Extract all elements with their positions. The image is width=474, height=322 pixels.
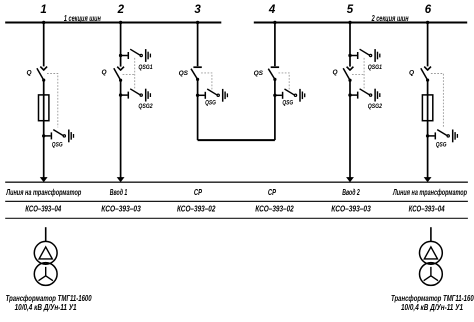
interlock link Q-QSG (cell 6) xyxy=(431,74,444,128)
fuse FU (cell 1) xyxy=(39,95,49,121)
transformer T2 (two windings) xyxy=(420,241,443,285)
earthing switch QSG2 (cell 5) xyxy=(348,89,382,111)
wire to transformer T1 xyxy=(45,227,47,241)
disconnector QS (cell 4) xyxy=(254,67,280,81)
svg-text:Q: Q xyxy=(332,69,337,76)
wire cell 4 upper drop xyxy=(274,23,276,67)
load break switch Q (cell 1) xyxy=(26,67,47,82)
wire cell 5 lower drop xyxy=(349,80,351,177)
wire cell 2 upper drop xyxy=(120,23,122,67)
interlock link QSG1-Q-QSG2 (cell 2) xyxy=(123,58,135,90)
interlock link QS-QSG (cell 4) xyxy=(278,73,289,90)
earthing switch QSG2 (cell 2) xyxy=(119,89,153,111)
svg-text:Трансформатор ТМГ11-1600: Трансформатор ТМГ11-1600 xyxy=(6,294,92,303)
wire cell 6 lower drop xyxy=(427,80,429,178)
svg-text:Линия на трансформатор: Линия на трансформатор xyxy=(6,187,82,197)
earthing switch QSG (cell 3) xyxy=(196,89,227,107)
table middle line xyxy=(5,200,468,202)
svg-text:QSG1: QSG1 xyxy=(368,65,383,71)
earthing switch QSG (cell 6) xyxy=(426,130,458,149)
svg-text:3: 3 xyxy=(194,4,201,16)
interlock link QS-QSG (cell 3) xyxy=(201,73,212,90)
svg-text:QSG1: QSG1 xyxy=(138,65,153,71)
svg-text:Ввод 2: Ввод 2 xyxy=(342,187,360,197)
delta winding symbol T2 xyxy=(424,247,437,259)
fuse FU (cell 6) xyxy=(422,95,432,121)
svg-text:1: 1 xyxy=(40,4,46,16)
svg-text:QSG: QSG xyxy=(205,101,216,107)
disconnector QS (cell 3) xyxy=(179,67,202,81)
wire cell 4 lower drop xyxy=(274,79,276,140)
interlock link Q-QSG (cell 1) xyxy=(47,74,58,128)
svg-text:4: 4 xyxy=(268,4,276,16)
svg-text:Ввод 1: Ввод 1 xyxy=(110,187,128,197)
wire cell 1 upper drop xyxy=(43,23,45,67)
earthing switch QSG (cell 4) xyxy=(273,89,305,107)
earthing switch QSG1 (cell 5) xyxy=(348,49,382,71)
svg-text:Q: Q xyxy=(26,69,31,76)
svg-text:КСО–393–04: КСО–393–04 xyxy=(25,205,61,214)
svg-text:Линия на трансформатор: Линия на трансформатор xyxy=(392,187,467,197)
svg-text:СР: СР xyxy=(268,187,276,197)
svg-text:2 секция шин: 2 секция шин xyxy=(371,14,409,23)
svg-text:10/0,4 кВ Д/Ун-11 У1: 10/0,4 кВ Д/Ун-11 У1 xyxy=(401,303,463,312)
interlock link QSG1-Q-QSG2 (cell 5) xyxy=(352,58,364,90)
svg-text:QS: QS xyxy=(254,70,264,77)
arrow into table cell 6 xyxy=(424,177,432,182)
svg-text:Q: Q xyxy=(102,69,107,76)
svg-text:QSG: QSG xyxy=(436,142,447,148)
delta winding symbol T1 xyxy=(39,247,52,259)
svg-text:КСО–393–04: КСО–393–04 xyxy=(409,205,445,214)
svg-text:QSG2: QSG2 xyxy=(138,104,153,110)
svg-text:QSG: QSG xyxy=(52,142,63,148)
svg-text:КСО–393–03: КСО–393–03 xyxy=(331,205,371,214)
svg-text:КСО–393–03: КСО–393–03 xyxy=(101,205,141,214)
table top line xyxy=(5,181,468,183)
wire cell 3 lower drop xyxy=(197,79,199,140)
table bottom line xyxy=(5,217,468,219)
load break switch Q (cell 6) xyxy=(409,67,431,82)
arrow into table cell 1 xyxy=(40,177,48,182)
wire cell 6 upper drop xyxy=(427,23,429,67)
svg-text:10/0,4 кВ Д/Ун-11 У1: 10/0,4 кВ Д/Ун-11 У1 xyxy=(15,303,77,312)
earthing switch QSG (cell 1) xyxy=(42,130,74,149)
svg-text:КСО–393–02: КСО–393–02 xyxy=(177,205,216,214)
wire cell 5 upper drop xyxy=(349,23,351,67)
svg-text:СР: СР xyxy=(194,187,202,197)
arrow into table cell 2 xyxy=(117,177,125,182)
load break switch Q (cell 5) xyxy=(332,67,353,82)
svg-text:QSG2: QSG2 xyxy=(368,104,383,110)
bus section 2 (2 секция шин) xyxy=(254,14,467,24)
section link wire between cells 3 and 4 xyxy=(198,139,275,141)
svg-text:QSG: QSG xyxy=(282,101,293,107)
svg-text:5: 5 xyxy=(347,4,354,16)
load break switch Q (cell 2) xyxy=(102,67,124,82)
arrow into table cell 5 xyxy=(346,177,354,182)
wire cell 2 lower drop xyxy=(120,80,122,177)
svg-text:КСО–393–02: КСО–393–02 xyxy=(255,205,294,214)
wire to transformer T2 xyxy=(430,227,432,241)
svg-text:6: 6 xyxy=(425,4,432,16)
transformer T1 (two windings) xyxy=(34,241,57,285)
wire cell 3 upper drop xyxy=(197,23,199,67)
svg-text:1 секция шин: 1 секция шин xyxy=(64,14,101,23)
wye winding symbol T2 xyxy=(424,267,438,281)
bus section 1 (1 секция шин) xyxy=(5,14,221,24)
svg-text:Трансформатор ТМГ11-1600: Трансформатор ТМГ11-1600 xyxy=(391,294,474,303)
svg-text:Q: Q xyxy=(409,69,414,76)
wye winding symbol T1 xyxy=(39,267,53,281)
svg-text:2: 2 xyxy=(117,4,125,16)
svg-text:QS: QS xyxy=(179,70,189,77)
wire cell 1 lower drop xyxy=(43,80,45,178)
earthing switch QSG1 (cell 2) xyxy=(119,49,153,71)
